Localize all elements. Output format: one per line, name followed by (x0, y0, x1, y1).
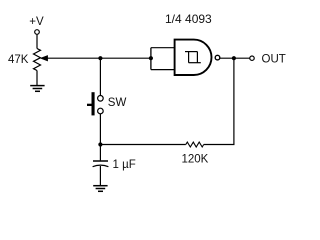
wire potentiometer to ground (36, 71, 38, 86)
svg-text:1/4 4093: 1/4 4093 (165, 12, 212, 26)
+V supply terminal (35, 30, 40, 35)
svg-text:47K: 47K (8, 54, 29, 66)
potentiometer wiper arrow (41, 56, 48, 61)
ground (below capacitor) (93, 186, 107, 192)
junction node on input bar (149, 56, 153, 60)
NAND gate U1 (1/4 4093) body (175, 40, 212, 75)
svg-text:SW: SW (108, 97, 127, 109)
ground (below potentiometer) (30, 86, 44, 92)
wire node to 120K resistor (100, 144, 185, 146)
wire top input stub (151, 47, 175, 49)
OUT terminal (250, 56, 254, 60)
gate output inversion bubble (215, 55, 220, 60)
hysteresis symbol inside gate (185, 52, 201, 63)
resistor 120K (186, 142, 204, 147)
wire 120K to output node (204, 58, 234, 144)
wire gate output to OUT terminal (220, 57, 250, 59)
potentiometer 47K body (34, 49, 41, 71)
junction node at SW branch (98, 56, 102, 60)
wire +V to potentiometer (36, 35, 38, 49)
gate input tie bar (150, 48, 152, 70)
switch SW pushbutton (87, 92, 103, 115)
wire switch to capacitor node (99, 114, 101, 145)
capacitor C1 1uF (93, 161, 109, 167)
svg-text:OUT: OUT (262, 54, 286, 66)
svg-text:+V: +V (29, 16, 44, 28)
svg-text:120K: 120K (182, 153, 209, 165)
wire node to switch (99, 58, 101, 95)
wire node to capacitor (99, 145, 101, 161)
wire wiper to gate input (45, 57, 151, 59)
svg-text:1 µF: 1 µF (113, 159, 136, 171)
wire capacitor to ground (99, 166, 101, 185)
junction node capacitor / feedback (98, 142, 102, 146)
junction node output / feedback (232, 56, 236, 60)
wire bottom input stub (151, 69, 175, 71)
